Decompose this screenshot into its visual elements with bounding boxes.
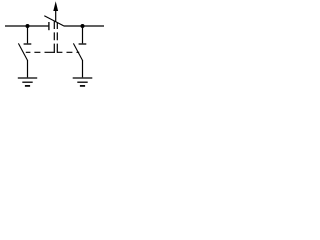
actuator arrow head (53, 1, 58, 11)
switch S2 lever (18, 43, 27, 60)
wire: switch S2 to ground (27, 60, 29, 77)
mechanical linkage S1-S2 (dashed vertical) (53, 21, 55, 53)
ground GND1 (18, 78, 37, 86)
switch S2 fixed contact bar (24, 43, 32, 45)
switch S1 fixed contact bar (left plate of center switch) (48, 22, 50, 30)
ground GND2 (73, 78, 93, 86)
switch S3 fixed contact bar (79, 43, 87, 45)
wire: node B down to switch S3 (82, 26, 84, 43)
wire top-left segment (5, 25, 48, 27)
wire top-right segment (64, 25, 105, 27)
node B junction dot (right) (81, 24, 85, 28)
mechanical linkage dashed run to switch S3 (right) (57, 51, 79, 53)
mechanical linkage dashed run to switch S2 (left) (26, 51, 55, 53)
switch S1 lever (44, 16, 63, 26)
switch S3 lever (73, 43, 82, 60)
wire: node A down to switch S2 (27, 26, 29, 43)
node A junction dot (left) (26, 24, 30, 28)
mechanical linkage S1-S3 (dashed vertical) (56, 23, 58, 53)
actuator arrow shaft (55, 10, 57, 22)
wire: switch S3 to ground (82, 60, 84, 77)
